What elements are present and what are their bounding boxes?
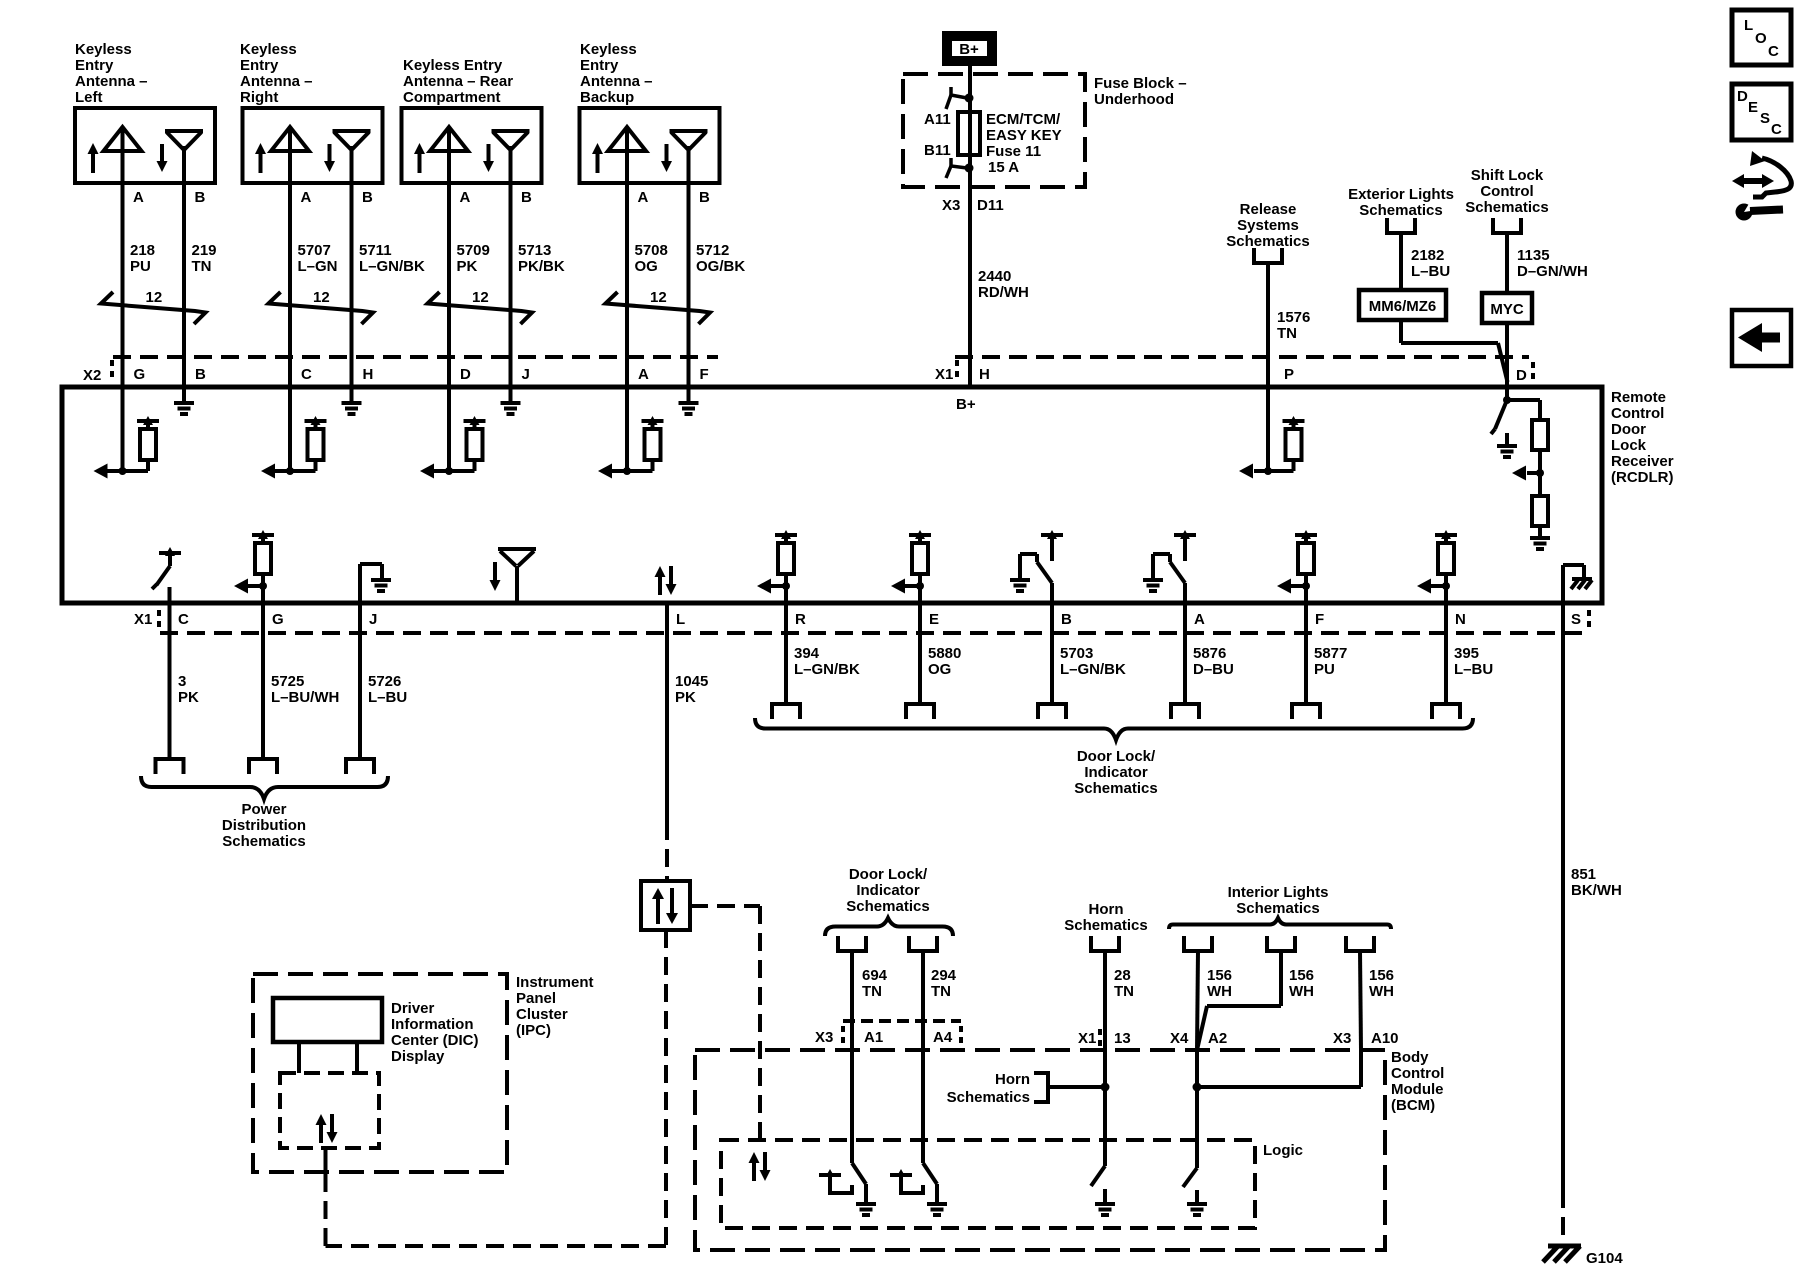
BCM internal switch blade + ground for horn bbox=[1091, 1166, 1115, 1215]
svg-text:12: 12 bbox=[146, 289, 163, 306]
wire B+ to fuse to RCDLR pin H bbox=[968, 66, 972, 387]
RCDLR internal switch to ground at x=1052 bbox=[1010, 530, 1063, 591]
svg-text:Instrument: Instrument bbox=[516, 974, 594, 991]
svg-text:Systems: Systems bbox=[1237, 217, 1299, 234]
svg-text:H: H bbox=[979, 366, 990, 383]
svg-text:Door: Door bbox=[1611, 421, 1646, 438]
svg-text:PK: PK bbox=[675, 689, 696, 706]
DIC serial data arrows bbox=[316, 1114, 338, 1143]
svg-text:Schematics: Schematics bbox=[1465, 199, 1548, 216]
off-page connector wire 694 bbox=[836, 936, 868, 951]
RCDLR internal resistor + arrow at x=920 bbox=[891, 530, 931, 594]
svg-text:Schematics: Schematics bbox=[1074, 780, 1157, 797]
svg-text:X3: X3 bbox=[1333, 1030, 1351, 1047]
RCDLR module label bbox=[1611, 389, 1674, 486]
svg-text:3: 3 bbox=[178, 673, 186, 690]
icon DESC box bbox=[1732, 84, 1791, 140]
svg-text:G: G bbox=[134, 366, 146, 383]
horn schematics label (left) bbox=[947, 1071, 1030, 1106]
svg-text:5707: 5707 bbox=[298, 242, 331, 259]
svg-text:Antenna –: Antenna – bbox=[75, 73, 148, 90]
svg-text:Shift Lock: Shift Lock bbox=[1471, 167, 1544, 184]
keyless entry antenna rear compartment : title bbox=[403, 57, 513, 106]
svg-text:L–BU: L–BU bbox=[368, 689, 407, 706]
keyless entry antenna backup : box bbox=[580, 108, 720, 183]
svg-text:Door Lock/: Door Lock/ bbox=[849, 866, 928, 883]
node B+ label inside RCDLR bbox=[956, 396, 976, 413]
ground inside RCDLR under pin J bbox=[501, 403, 521, 414]
svg-text:Keyless: Keyless bbox=[240, 41, 297, 58]
svg-text:L: L bbox=[1744, 17, 1753, 34]
svg-text:D–GN/WH: D–GN/WH bbox=[1517, 263, 1588, 280]
wire 1045 PK from pin L bbox=[667, 603, 708, 881]
svg-text:Indicator: Indicator bbox=[1084, 764, 1148, 781]
svg-text:F: F bbox=[1315, 611, 1324, 628]
serial data dashed link to IPC bbox=[326, 930, 667, 1246]
svg-text:PK/BK: PK/BK bbox=[518, 258, 565, 275]
svg-text:WH: WH bbox=[1207, 983, 1232, 1000]
svg-text:Compartment: Compartment bbox=[403, 89, 501, 106]
svg-text:B: B bbox=[1061, 611, 1072, 628]
svg-text:1135: 1135 bbox=[1517, 247, 1550, 264]
svg-text:O: O bbox=[1755, 30, 1767, 47]
svg-text:L–GN/BK: L–GN/BK bbox=[359, 258, 425, 275]
svg-text:X3: X3 bbox=[942, 197, 960, 214]
svg-text:B+: B+ bbox=[956, 396, 976, 413]
svg-text:A: A bbox=[638, 189, 649, 206]
svg-text:BK/WH: BK/WH bbox=[1571, 882, 1622, 899]
off-page connector for wire 3 PK bbox=[154, 759, 186, 774]
svg-text:5726: 5726 bbox=[368, 673, 401, 690]
release systems schematics label bbox=[1226, 201, 1309, 250]
svg-text:A: A bbox=[638, 366, 649, 383]
BCM internal switch blade + ground for 694 bbox=[852, 1163, 876, 1215]
twisted pair 12 marker bbox=[269, 289, 374, 324]
svg-text:E: E bbox=[1748, 99, 1758, 116]
svg-text:Schematics: Schematics bbox=[1359, 202, 1442, 219]
svg-text:H: H bbox=[363, 366, 374, 383]
fuse 11 clips bbox=[946, 87, 974, 178]
svg-text:B+: B+ bbox=[959, 41, 979, 58]
svg-text:156: 156 bbox=[1207, 967, 1232, 984]
RCDLR internal resistor + arrow at pin D bbox=[420, 416, 486, 479]
svg-text:Antenna –: Antenna – bbox=[580, 73, 653, 90]
power feed B+ box bbox=[947, 36, 992, 61]
RCDLR internal switch to ground at x=1185 bbox=[1143, 530, 1196, 591]
wire 5713 PK/BK (pin B) bbox=[511, 183, 565, 403]
twisted pair 12 marker bbox=[428, 289, 533, 324]
serial data dashed link to BCM logic bbox=[690, 906, 760, 1140]
RCDLR internal serial data arrows at pin L bbox=[655, 566, 677, 595]
option box MYC bbox=[1482, 293, 1532, 323]
svg-text:B: B bbox=[521, 189, 532, 206]
option box MM6/MZ6 bbox=[1359, 290, 1446, 320]
svg-text:WH: WH bbox=[1369, 983, 1394, 1000]
svg-text:G: G bbox=[272, 611, 284, 628]
svg-text:P: P bbox=[1284, 366, 1294, 383]
svg-text:D11: D11 bbox=[977, 197, 1004, 214]
RCDLR internal ground hook at pin J bbox=[360, 564, 391, 603]
svg-text:MM6/MZ6: MM6/MZ6 bbox=[1369, 298, 1437, 315]
svg-text:R: R bbox=[795, 611, 806, 628]
svg-text:Schematics: Schematics bbox=[947, 1089, 1030, 1106]
off-page connectors 156 WH x3 bbox=[1182, 936, 1376, 951]
svg-text:L–BU: L–BU bbox=[1454, 661, 1493, 678]
door lock indicator schematics label bbox=[1074, 748, 1157, 797]
wire 5725 L-BU/WH from pin G bbox=[263, 586, 339, 759]
svg-text:Control: Control bbox=[1480, 183, 1533, 200]
svg-text:(RCDLR): (RCDLR) bbox=[1611, 469, 1673, 486]
svg-text:D–BU: D–BU bbox=[1193, 661, 1234, 678]
svg-text:5711: 5711 bbox=[359, 242, 392, 259]
svg-text:G104: G104 bbox=[1586, 1250, 1623, 1267]
svg-text:Body: Body bbox=[1391, 1049, 1429, 1066]
door lock indicator brace (BCM side) bbox=[825, 918, 953, 936]
svg-text:Underhood: Underhood bbox=[1094, 91, 1174, 108]
svg-text:851: 851 bbox=[1571, 866, 1596, 883]
svg-text:TN: TN bbox=[192, 258, 212, 275]
svg-text:Left: Left bbox=[75, 89, 103, 106]
RCDLR internal resistor + arrow at pin A bbox=[598, 416, 664, 479]
svg-text:TN: TN bbox=[862, 983, 882, 1000]
svg-text:RD/WH: RD/WH bbox=[978, 284, 1029, 301]
fuse block connector X3 D11 bbox=[942, 197, 1004, 214]
wire from MM6/MZ6 to pin D bbox=[1401, 320, 1508, 382]
RCDLR internal resistor + arrow at pin P bbox=[1239, 416, 1305, 479]
svg-text:TN: TN bbox=[1114, 983, 1134, 1000]
connector X4 pin A2 / X3 pin A10 bbox=[1170, 1030, 1399, 1047]
svg-text:TN: TN bbox=[931, 983, 951, 1000]
BCM internal switch blade + ground for 294 bbox=[923, 1163, 947, 1215]
wire 218 PU (pin A) bbox=[123, 183, 156, 471]
svg-text:Entry: Entry bbox=[240, 57, 279, 74]
interior lights bracket bbox=[1169, 918, 1391, 929]
power distribution schematics label bbox=[222, 801, 306, 850]
wire 156 WH (2) bbox=[1197, 951, 1314, 1050]
connector X1 (BCM) pin 13 bbox=[1078, 1029, 1131, 1047]
svg-text:2440: 2440 bbox=[978, 268, 1011, 285]
RCDLR internal resistor + arrow at pin C bbox=[261, 416, 327, 479]
svg-text:C: C bbox=[1768, 43, 1779, 60]
twisted pair 12 marker bbox=[606, 289, 711, 324]
svg-text:Display: Display bbox=[391, 1048, 445, 1065]
RCDLR internal antenna symbol bbox=[490, 549, 537, 601]
svg-text:A1: A1 bbox=[864, 1029, 883, 1046]
svg-text:A: A bbox=[133, 189, 144, 206]
svg-text:X1: X1 bbox=[1078, 1030, 1096, 1047]
wire 1135 D-GN/WH label bbox=[1507, 233, 1588, 293]
svg-text:13: 13 bbox=[1114, 1030, 1131, 1047]
svg-text:Receiver: Receiver bbox=[1611, 453, 1674, 470]
svg-text:12: 12 bbox=[650, 289, 667, 306]
svg-text:J: J bbox=[369, 611, 377, 628]
wire MYC to RCDLR pin D bbox=[1505, 323, 1509, 400]
svg-text:E: E bbox=[929, 611, 939, 628]
svg-text:A: A bbox=[460, 189, 471, 206]
svg-text:394: 394 bbox=[794, 645, 820, 662]
svg-text:Control: Control bbox=[1611, 405, 1664, 422]
svg-text:ECM/TCM/: ECM/TCM/ bbox=[986, 111, 1061, 128]
wire 1576 TN to RCDLR pin P bbox=[1268, 263, 1310, 471]
svg-text:F: F bbox=[700, 366, 709, 383]
svg-text:EASY KEY: EASY KEY bbox=[986, 127, 1062, 144]
svg-text:L–BU/WH: L–BU/WH bbox=[271, 689, 339, 706]
svg-text:X4: X4 bbox=[1170, 1030, 1189, 1047]
svg-text:D: D bbox=[1516, 367, 1527, 384]
driver information center label bbox=[391, 1000, 479, 1065]
shift lock control schematics label bbox=[1465, 167, 1548, 216]
off-page connector for wire 395 bbox=[1430, 704, 1462, 719]
svg-text:Keyless: Keyless bbox=[75, 41, 132, 58]
horn schematics label (top) bbox=[1064, 901, 1147, 934]
svg-text:Lock: Lock bbox=[1611, 437, 1647, 454]
svg-text:218: 218 bbox=[130, 242, 155, 259]
ground G104 bbox=[1543, 1246, 1623, 1267]
svg-text:Fuse Block –: Fuse Block – bbox=[1094, 75, 1187, 92]
svg-text:X1: X1 bbox=[134, 611, 152, 628]
wire 5712 OG/BK (pin B) bbox=[689, 183, 746, 403]
door lock / indicator brace bbox=[755, 718, 1473, 740]
svg-text:156: 156 bbox=[1369, 967, 1394, 984]
svg-text:A: A bbox=[301, 189, 312, 206]
icon back arrow box bbox=[1732, 310, 1791, 366]
icon LOC box bbox=[1732, 10, 1791, 65]
svg-text:A2: A2 bbox=[1208, 1030, 1227, 1047]
svg-text:X3: X3 bbox=[815, 1029, 833, 1046]
svg-text:X2: X2 bbox=[83, 367, 101, 384]
svg-text:Entry: Entry bbox=[580, 57, 619, 74]
wire 5726 L-BU from pin J bbox=[360, 603, 407, 759]
svg-text:28: 28 bbox=[1114, 967, 1131, 984]
svg-text:Schematics: Schematics bbox=[1226, 233, 1309, 250]
connector X2 pins D J bbox=[460, 366, 530, 383]
wire 3 PK from pin C bbox=[170, 587, 200, 759]
svg-text:Schematics: Schematics bbox=[1064, 917, 1147, 934]
svg-text:L–BU: L–BU bbox=[1411, 263, 1450, 280]
wire 156 WH (3) bbox=[1360, 951, 1394, 1050]
RCDLR internal switch at pin C bbox=[152, 547, 181, 589]
svg-text:Panel: Panel bbox=[516, 990, 556, 1007]
svg-text:Remote: Remote bbox=[1611, 389, 1666, 406]
ground contact for pin D switch bbox=[1497, 433, 1517, 457]
svg-text:Control: Control bbox=[1391, 1065, 1444, 1082]
twisted pair 12 marker bbox=[101, 289, 206, 324]
connector X2 pins G B bbox=[134, 366, 207, 383]
svg-text:Schematics: Schematics bbox=[846, 898, 929, 915]
svg-text:PK: PK bbox=[457, 258, 478, 275]
ground inside RCDLR under pin H bbox=[342, 403, 362, 414]
svg-text:5713: 5713 bbox=[518, 242, 551, 259]
svg-text:395: 395 bbox=[1454, 645, 1479, 662]
RCDLR internal resistor + arrow at pin G bbox=[234, 530, 274, 594]
svg-text:C: C bbox=[301, 366, 312, 383]
off-page connector for wire 394 bbox=[770, 704, 802, 719]
off-page connector for wire 5876 bbox=[1169, 704, 1201, 719]
wire 219 TN (pin B) bbox=[184, 183, 217, 403]
RCDLR internal resistor + arrow at x=1446 bbox=[1417, 530, 1457, 594]
antenna rear compartment pin labels A B bbox=[460, 189, 533, 206]
logic serial data arrows bbox=[749, 1152, 771, 1181]
off-page connector wire 28 bbox=[1089, 936, 1121, 951]
wire A2 to A10 link inside BCM bbox=[1193, 1050, 1362, 1168]
svg-text:5725: 5725 bbox=[271, 673, 304, 690]
svg-text:694: 694 bbox=[862, 967, 888, 984]
BCM internal coil hook for 294 bbox=[890, 1169, 923, 1193]
svg-text:Keyless Entry: Keyless Entry bbox=[403, 57, 503, 74]
svg-text:Center (DIC): Center (DIC) bbox=[391, 1032, 479, 1049]
logic dashed box bbox=[721, 1140, 1303, 1228]
connector X2 pins C H bbox=[301, 366, 373, 383]
svg-text:Horn: Horn bbox=[1089, 901, 1124, 918]
off-page connector for wire 5703 bbox=[1036, 704, 1068, 719]
instrument panel cluster dashed box bbox=[253, 974, 507, 1172]
door lock indicator schematics label (BCM side) bbox=[846, 866, 929, 915]
ground inside RCDLR under pin B bbox=[174, 403, 194, 414]
keyless entry antenna right : title bbox=[240, 41, 313, 106]
horn schematics side connector fork bbox=[1034, 1071, 1110, 1104]
BCM internal switch blade + ground for interior lights bbox=[1183, 1168, 1207, 1215]
wire 294 TN bbox=[923, 951, 957, 1163]
svg-text:Keyless: Keyless bbox=[580, 41, 637, 58]
wire 5711 L–GN/BK (pin B) bbox=[352, 183, 426, 403]
svg-text:Schematics: Schematics bbox=[222, 833, 305, 850]
svg-text:5709: 5709 bbox=[457, 242, 490, 259]
antenna right pin labels A B bbox=[301, 189, 374, 206]
svg-text:294: 294 bbox=[931, 967, 957, 984]
svg-text:Antenna –: Antenna – bbox=[240, 73, 313, 90]
keyless entry antenna right : box bbox=[243, 108, 383, 183]
svg-text:A11: A11 bbox=[924, 111, 951, 128]
svg-text:OG/BK: OG/BK bbox=[696, 258, 745, 275]
off-page connector for wire 5726 bbox=[344, 759, 376, 774]
svg-text:Module: Module bbox=[1391, 1081, 1444, 1098]
svg-text:N: N bbox=[1455, 611, 1466, 628]
connector X1 top dashed line bbox=[935, 357, 1533, 384]
RCDLR internal resistor + arrow at x=1306 bbox=[1277, 530, 1317, 594]
svg-text:Horn: Horn bbox=[995, 1071, 1030, 1088]
svg-text:Backup: Backup bbox=[580, 89, 634, 106]
wire 2440 RD/WH label bbox=[978, 268, 1029, 301]
wire 5707 L–GN (pin A) bbox=[290, 183, 338, 471]
icon wiring tools bbox=[1732, 151, 1791, 221]
svg-text:A10: A10 bbox=[1371, 1030, 1399, 1047]
RCDLR internal switch at pin D bbox=[1491, 396, 1511, 434]
off-page connector for wire 5877 bbox=[1290, 704, 1322, 719]
RCDLR internal resistor chain at pin D bbox=[1507, 400, 1550, 549]
RCDLR internal resistor + arrow at x=786 bbox=[757, 530, 797, 594]
svg-text:5880: 5880 bbox=[928, 645, 961, 662]
svg-text:B: B bbox=[195, 366, 206, 383]
exterior lights off-page connector bbox=[1385, 218, 1417, 233]
svg-text:PK: PK bbox=[178, 689, 199, 706]
svg-text:Indicator: Indicator bbox=[856, 882, 920, 899]
svg-text:219: 219 bbox=[192, 242, 217, 259]
svg-text:156: 156 bbox=[1289, 967, 1314, 984]
fuse block underhood dashed box bbox=[903, 74, 1187, 187]
release systems off-page connector bbox=[1252, 248, 1284, 263]
interior lights schematics label bbox=[1228, 884, 1329, 917]
svg-text:D: D bbox=[460, 366, 471, 383]
svg-text:B: B bbox=[699, 189, 710, 206]
svg-text:C: C bbox=[178, 611, 189, 628]
svg-text:5712: 5712 bbox=[696, 242, 729, 259]
antenna backup pin labels A B bbox=[638, 189, 711, 206]
driver information center display box bbox=[273, 998, 382, 1073]
keyless entry antenna rear compartment : box bbox=[402, 108, 542, 183]
svg-text:A4: A4 bbox=[933, 1029, 953, 1046]
svg-text:Entry: Entry bbox=[75, 57, 114, 74]
svg-text:L: L bbox=[676, 611, 685, 628]
keyless entry antenna left : title bbox=[75, 41, 148, 106]
RCDLR internal chassis ground at pin S bbox=[1563, 565, 1592, 603]
svg-text:J: J bbox=[522, 366, 530, 383]
svg-text:B: B bbox=[195, 189, 206, 206]
svg-text:TN: TN bbox=[1277, 325, 1297, 342]
svg-text:Driver: Driver bbox=[391, 1000, 435, 1017]
svg-text:15 A: 15 A bbox=[988, 159, 1019, 176]
svg-text:C: C bbox=[1771, 121, 1782, 138]
off-page connector for wire 5880 bbox=[904, 704, 936, 719]
keyless entry antenna backup : title bbox=[580, 41, 653, 106]
fuse 11 element ECM/TCM/EASY KEY 15A bbox=[924, 111, 1062, 176]
wire 5880 OG bbox=[920, 586, 961, 704]
wire 5876 D–BU bbox=[1185, 583, 1234, 704]
exterior lights schematics label bbox=[1348, 186, 1454, 219]
instrument panel cluster label bbox=[516, 974, 594, 1039]
wire 28 TN bbox=[1105, 951, 1134, 1166]
serial data interface box bbox=[641, 881, 690, 930]
connector X1 bottom pin letters bbox=[178, 610, 1589, 630]
wire 5877 PU bbox=[1306, 586, 1347, 704]
wire 5708 OG (pin A) bbox=[627, 183, 668, 471]
svg-text:(IPC): (IPC) bbox=[516, 1022, 551, 1039]
svg-text:L–GN: L–GN bbox=[298, 258, 338, 275]
svg-text:S: S bbox=[1571, 611, 1581, 628]
svg-text:12: 12 bbox=[472, 289, 489, 306]
power distribution brace bbox=[141, 776, 388, 799]
svg-text:Antenna – Rear: Antenna – Rear bbox=[403, 73, 513, 90]
svg-text:L–GN/BK: L–GN/BK bbox=[1060, 661, 1126, 678]
wire 694 TN bbox=[852, 951, 888, 1163]
svg-text:Logic: Logic bbox=[1263, 1142, 1303, 1159]
wire 394 L–GN/BK bbox=[786, 586, 860, 704]
svg-text:B: B bbox=[362, 189, 373, 206]
wire 5709 PK (pin A) bbox=[449, 183, 490, 471]
svg-text:OG: OG bbox=[635, 258, 658, 275]
connector X3 (BCM) pins A1 A4 bbox=[815, 1021, 961, 1046]
svg-text:PU: PU bbox=[1314, 661, 1335, 678]
svg-text:Distribution: Distribution bbox=[222, 817, 306, 834]
svg-text:5708: 5708 bbox=[635, 242, 668, 259]
svg-text:A: A bbox=[1194, 611, 1205, 628]
svg-text:Right: Right bbox=[240, 89, 278, 106]
svg-text:Exterior Lights: Exterior Lights bbox=[1348, 186, 1454, 203]
wire 851 BK/WH from pin S to G104 bbox=[1563, 603, 1622, 1244]
svg-text:MYC: MYC bbox=[1490, 301, 1524, 318]
svg-text:L–GN/BK: L–GN/BK bbox=[794, 661, 860, 678]
svg-text:12: 12 bbox=[313, 289, 330, 306]
svg-text:5877: 5877 bbox=[1314, 645, 1347, 662]
svg-text:5703: 5703 bbox=[1060, 645, 1093, 662]
BCM internal coil hook for 694 bbox=[819, 1169, 852, 1193]
shift lock off-page connector bbox=[1491, 218, 1523, 233]
svg-text:Power: Power bbox=[241, 801, 286, 818]
svg-text:1045: 1045 bbox=[675, 673, 708, 690]
off-page connector for wire 5725 bbox=[247, 759, 279, 774]
RCDLR module box bbox=[62, 387, 1602, 603]
svg-text:Cluster: Cluster bbox=[516, 1006, 568, 1023]
connector X2 dashed line bbox=[83, 357, 718, 384]
